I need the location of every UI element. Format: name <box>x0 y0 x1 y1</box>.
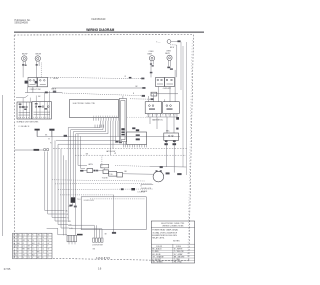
relay lower wires <box>149 117 151 124</box>
svg-text:BK: BK <box>105 234 107 236</box>
svg-text:1.5: 1.5 <box>37 240 39 242</box>
switch S2 box <box>38 78 48 87</box>
MDL motor door latch box <box>164 133 179 140</box>
svg-text:14: 14 <box>47 240 49 242</box>
svg-text:BK: BK <box>45 135 47 137</box>
relay pin ticks <box>148 114 150 118</box>
wire left jog at border <box>16 97 25 99</box>
svg-text:GY: GY <box>23 254 25 256</box>
svg-text:DOOR LOCK: DOOR LOCK <box>84 200 95 202</box>
svg-text:2: 2 <box>50 78 51 80</box>
relay K2 broil box <box>163 102 180 114</box>
wire motor left <box>141 184 153 186</box>
svg-text:OR: OR <box>14 246 16 248</box>
assembly box outline <box>81 197 146 230</box>
wire bus H5 dashed <box>75 154 186 156</box>
terminal blob right lower <box>176 128 178 130</box>
connector J3 hatched <box>67 235 77 242</box>
svg-text:N: N <box>23 257 24 259</box>
dash D3 splice <box>121 188 124 190</box>
svg-text:16: 16 <box>14 237 16 239</box>
svg-text:WIRING CONNECTIONS: WIRING CONNECTIONS <box>162 226 184 228</box>
wires EOC pins going down <box>110 121 112 156</box>
lock switch contact a <box>136 134 140 136</box>
svg-text:Y: Y <box>42 254 43 256</box>
EOC bottom pin comb <box>93 118 95 121</box>
lock switch box <box>127 132 147 145</box>
svg-text:2.5: 2.5 <box>32 249 34 251</box>
strip top tick <box>122 96 124 99</box>
dark splice below box <box>77 234 83 236</box>
svg-text:Y: Y <box>18 254 19 256</box>
svg-text:Y: Y <box>14 240 15 242</box>
svg-text:BR: BR <box>23 249 25 251</box>
wire motor top bus dashed part <box>115 165 150 168</box>
svg-text:BK - BLACK: BK - BLACK <box>152 248 162 251</box>
svg-text:5995394089: 5995394089 <box>15 22 29 25</box>
switch S2 contacts <box>40 80 42 82</box>
connector strip J1 outer <box>119 99 126 142</box>
wire right bus 1 <box>180 42 182 90</box>
lamp L3 oven indicator light <box>149 56 154 61</box>
wire above table <box>47 227 58 229</box>
wire D4 drop <box>113 195 115 233</box>
svg-text:R: R <box>32 246 33 248</box>
svg-text:BR: BR <box>37 251 39 253</box>
svg-text:16: 16 <box>98 267 102 271</box>
wire T terminal <box>177 40 180 42</box>
wire T lower <box>170 44 177 46</box>
wires chain risers <box>77 134 79 165</box>
svg-text:BK/R: BK/R <box>165 53 170 55</box>
relay pin label row <box>147 114 178 116</box>
svg-text:BAKE BROIL: BAKE BROIL <box>152 119 163 122</box>
svg-text:FEF366ASF: FEF366ASF <box>92 17 107 21</box>
svg-text:R: R <box>47 257 48 259</box>
dotted wire from strip <box>127 116 146 118</box>
svg-text:14: 14 <box>28 240 30 242</box>
svg-text:GLOBAL CNTRL 2000W BK W: GLOBAL CNTRL 2000W BK W <box>152 231 177 234</box>
wire dash D3 <box>58 188 153 190</box>
fuse lower blobs <box>69 205 72 207</box>
relay K2 contacts <box>166 105 168 107</box>
connector strip J1 inner <box>121 101 125 140</box>
frame right border echo <box>188 40 192 258</box>
MDL bottom pins <box>165 140 168 142</box>
svg-text:V: V <box>47 246 48 248</box>
svg-text:R: R <box>32 234 33 236</box>
svg-text:N: N <box>14 234 15 236</box>
wire W-A inline connector <box>129 77 132 79</box>
svg-text:BR: BR <box>28 249 30 251</box>
connector strip J1 contacts <box>121 128 124 130</box>
relay K1 contacts <box>149 105 151 107</box>
svg-text:POWER RELAY 1 AMP 240VAC: POWER RELAY 1 AMP 240VAC <box>152 229 179 232</box>
EOC P2 pin comb <box>94 125 96 128</box>
vertical dashed mid <box>101 155 103 168</box>
svg-text:L2: L2 <box>42 251 44 253</box>
MDL internal contacts <box>168 135 170 137</box>
svg-text:TOD BK: TOD BK <box>102 177 109 179</box>
svg-text:CODE: CODE <box>176 246 182 248</box>
svg-text:N: N <box>18 257 19 259</box>
surface switch cluster box A <box>17 102 32 119</box>
svg-text:16: 16 <box>18 246 20 248</box>
lock switch contact b <box>136 138 140 140</box>
svg-text:N: N <box>32 251 33 253</box>
assembly internal wire upper <box>68 224 94 226</box>
svg-text:14: 14 <box>42 237 44 239</box>
svg-text:GN - GREEN: GN - GREEN <box>152 262 163 264</box>
svg-text:BU: BU <box>32 254 34 256</box>
svg-text:BK/W: BK/W <box>22 53 27 55</box>
svg-text:OR: OR <box>14 254 16 256</box>
relay bottom bus <box>146 116 177 118</box>
MDL down wires <box>165 142 167 167</box>
lamp L1 lead wires <box>22 61 24 77</box>
surface switch cluster box B <box>32 102 51 119</box>
svg-text:LATCH SW: LATCH SW <box>106 150 115 153</box>
wire W-C dashed to right <box>62 93 142 96</box>
svg-text:16: 16 <box>42 246 44 248</box>
svg-text:BU: BU <box>32 243 34 245</box>
svg-text:R: R <box>42 257 43 259</box>
relay top feed wires <box>147 96 149 102</box>
svg-text:2.5: 2.5 <box>42 234 44 236</box>
svg-text:BU: BU <box>18 243 20 245</box>
wire W-B terminal <box>142 87 145 89</box>
svg-text:RELAY CNTRL: RELAY CNTRL <box>152 237 164 240</box>
svg-text:L2: L2 <box>42 243 44 245</box>
switch S4 box <box>165 78 175 87</box>
svg-text:14: 14 <box>14 251 16 253</box>
svg-text:OR: OR <box>37 234 39 236</box>
lock box bottom comb <box>127 145 129 148</box>
svg-text:BK W: BK W <box>170 47 175 49</box>
wire D4 end terminal <box>112 232 116 234</box>
svg-text:ELECTRONIC OVEN CTRL: ELECTRONIC OVEN CTRL <box>73 103 95 105</box>
switch S3 box <box>156 78 165 87</box>
svg-text:LOCK SW: LOCK SW <box>138 192 146 194</box>
wire bus H2 <box>56 139 122 141</box>
relay K1 bake box <box>145 102 162 114</box>
wire bus H2 blobs <box>116 141 119 143</box>
connector eyelets <box>43 148 46 151</box>
svg-text:N: N <box>18 249 19 251</box>
plug terminal P1 <box>35 129 40 131</box>
svg-text:Y: Y <box>28 243 29 245</box>
svg-text:N: N <box>28 254 29 256</box>
svg-text:Y: Y <box>32 237 33 239</box>
motor splice blobs <box>166 172 170 174</box>
svg-text:Y: Y <box>28 237 29 239</box>
svg-text:MDL: MDL <box>166 131 170 133</box>
svg-text:NOTES: NOTES <box>173 241 180 243</box>
switch S3 contacts <box>157 79 159 81</box>
component T circle <box>167 40 171 44</box>
lamp L3 leads <box>150 61 152 78</box>
EOC pin label row <box>94 115 119 117</box>
svg-text:OR: OR <box>37 243 39 245</box>
frame right dashed border <box>189 35 194 261</box>
lamp L4 oven indicator light <box>167 55 172 60</box>
wire bundle mid verticals <box>63 155 65 235</box>
svg-text:R: R <box>23 237 24 239</box>
connector P4 pins <box>93 238 95 242</box>
switch S1 terminal blob <box>25 81 28 84</box>
frame left dashed border <box>13 35 15 259</box>
notes box frame <box>151 221 194 263</box>
wire W-C terminal <box>142 95 145 97</box>
lamp L1 surface indicator light <box>22 56 27 61</box>
wire right bus 2 <box>182 46 184 167</box>
wire chain to motor <box>123 173 153 175</box>
dash D3 diamond <box>131 188 135 190</box>
wire dash D2 <box>55 182 152 185</box>
lamp L4 connector blobs <box>167 67 170 69</box>
assembly internal wire lower <box>69 228 102 230</box>
svg-text:R: R <box>47 251 48 253</box>
svg-text:1.5: 1.5 <box>23 234 25 236</box>
svg-text:OR: OR <box>23 240 25 242</box>
fuse lower wire <box>72 203 74 206</box>
svg-text:PK - PINK: PK - PINK <box>174 262 183 264</box>
wire bus H3 <box>58 143 127 145</box>
wire T to right <box>171 40 178 42</box>
svg-text:BK/W: BK/W <box>36 53 41 55</box>
svg-text:2.5: 2.5 <box>28 257 30 259</box>
cluster internal wires <box>19 112 31 114</box>
svg-text:R: R <box>18 251 19 253</box>
svg-text:W BK: W BK <box>53 78 59 80</box>
connector J3 tails <box>68 242 70 245</box>
svg-text:GY: GY <box>47 249 49 251</box>
motor top terminals <box>160 166 163 168</box>
wire chain mid <box>98 170 103 172</box>
svg-text:L2: L2 <box>23 251 25 253</box>
switch S1 box <box>28 78 37 87</box>
blobs above lock box <box>132 127 135 129</box>
frame bottom dashed border <box>53 258 189 260</box>
legend table grid <box>151 243 194 245</box>
lock box top wires <box>123 142 125 148</box>
svg-text:R: R <box>47 237 48 239</box>
svg-text:14: 14 <box>42 249 44 251</box>
svg-text:V: V <box>28 251 29 253</box>
svg-text:WIRING DIAGRAM: WIRING DIAGRAM <box>86 28 114 32</box>
neutral line splice <box>34 149 40 151</box>
svg-text:DOOR MOTOR: DOOR MOTOR <box>92 245 103 247</box>
svg-text:T - TAN: T - TAN <box>174 258 180 261</box>
terminal blob right of K2 <box>176 117 179 120</box>
left wire bundle with stair corners <box>44 152 46 211</box>
wire neutral line <box>14 149 33 151</box>
wire stack terminal <box>151 98 154 100</box>
svg-text:L2: L2 <box>37 249 39 251</box>
svg-text:L1 240 VAC N: L1 240 VAC N <box>19 125 30 128</box>
chain connector pair <box>93 170 95 172</box>
cluster top feed wires <box>22 98 24 102</box>
lamp L2 lead wires <box>36 61 38 77</box>
switch S4 contacts <box>166 79 168 81</box>
svg-text:R: R <box>37 237 38 239</box>
wire dash D4 <box>60 194 114 196</box>
svg-text:Y: Y <box>14 249 15 251</box>
svg-text:BK R: BK R <box>52 89 57 91</box>
svg-text:V: V <box>32 257 33 259</box>
wire chain feed <box>80 170 87 172</box>
parts table grid <box>13 233 52 259</box>
wire motor top bus <box>150 165 186 168</box>
svg-text:V: V <box>37 254 38 256</box>
svg-text:07/05: 07/05 <box>4 268 11 271</box>
switch S1 contacts <box>30 80 32 82</box>
wire W-B solid to right <box>52 87 145 89</box>
svg-text:GY: GY <box>47 243 49 245</box>
wire L3 splice <box>150 72 153 74</box>
wire W-A dashed to right <box>48 77 144 78</box>
component thermal switch <box>151 92 157 96</box>
wire bus H1 <box>37 135 180 137</box>
wire dash D1 <box>52 180 145 181</box>
lamp L2 surface indicator light <box>35 56 40 61</box>
header rule line <box>14 31 204 33</box>
svg-text:BU: BU <box>18 234 20 236</box>
wire under stack <box>151 93 178 95</box>
svg-text:L2: L2 <box>23 243 25 245</box>
wire dash from fuse <box>90 198 145 200</box>
svg-text:GY - GRAY: GY - GRAY <box>174 253 183 256</box>
wire bus H4 dashed <box>53 148 188 150</box>
wires EOC pins bending left <box>100 121 102 128</box>
page edge artifact line <box>2 95 4 236</box>
wire W-C splice blobs <box>45 92 48 94</box>
small junction box <box>101 164 109 168</box>
svg-text:OR - ORANGE: OR - ORANGE <box>152 255 164 258</box>
chain box B <box>103 170 109 174</box>
svg-text:BR: BR <box>37 257 39 259</box>
bus splice blob <box>64 135 67 137</box>
chain box A <box>87 169 93 173</box>
chain box C <box>109 171 117 176</box>
wire right bus 3 <box>185 42 187 175</box>
cluster internal verticals <box>19 102 21 119</box>
wire dashed into stack <box>130 98 152 100</box>
svg-text:SURFACE UNIT SWITCHES: SURFACE UNIT SWITCHES <box>17 120 40 123</box>
lamp L4 leads <box>168 60 170 66</box>
svg-text:BK: BK <box>66 210 68 212</box>
wire from S1 down <box>26 87 28 93</box>
frame top dashed border <box>14 34 193 36</box>
motor M1 door lock motor <box>153 171 164 182</box>
EOC electronic oven control box <box>70 100 119 118</box>
svg-text:COLOR: COLOR <box>156 246 163 248</box>
wires from EOC to lower area <box>67 128 69 222</box>
svg-text:BK/R: BK/R <box>148 53 153 55</box>
svg-text:316418725: 316418725 <box>96 258 111 260</box>
svg-text:2.5: 2.5 <box>23 246 25 248</box>
fuse F1 thermal fuse <box>71 197 76 203</box>
wire W-A terminal <box>141 78 144 80</box>
cluster internal contacts <box>19 106 21 108</box>
wire W-C left segment <box>25 92 62 94</box>
plug terminal P2 <box>49 129 54 131</box>
svg-text:OVEN LT SW: OVEN LT SW <box>30 89 41 91</box>
svg-text:OR: OR <box>28 246 30 248</box>
chain box D <box>117 173 123 178</box>
svg-text:R: R <box>14 257 15 259</box>
switch S2 terminal blob <box>35 81 38 84</box>
